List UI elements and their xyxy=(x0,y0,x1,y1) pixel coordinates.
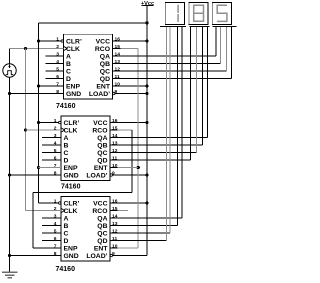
svg-text:QB: QB xyxy=(97,142,107,149)
svg-text:15: 15 xyxy=(112,206,118,212)
svg-text:CLR’: CLR’ xyxy=(64,200,80,207)
svg-text:4: 4 xyxy=(56,59,59,65)
svg-text:QD: QD xyxy=(97,157,107,164)
svg-text:CLR’: CLR’ xyxy=(64,120,80,127)
svg-text:15: 15 xyxy=(115,44,121,50)
svg-text:QB: QB xyxy=(97,223,107,230)
svg-text:14: 14 xyxy=(112,133,118,139)
svg-text:B: B xyxy=(66,61,71,68)
svg-text:6: 6 xyxy=(56,74,59,80)
svg-text:CLK: CLK xyxy=(64,208,78,215)
svg-text:11: 11 xyxy=(112,155,117,161)
svg-text:B: B xyxy=(64,142,69,149)
svg-text:9: 9 xyxy=(112,170,115,176)
svg-text:13: 13 xyxy=(112,140,118,146)
svg-text:QD: QD xyxy=(97,238,107,245)
svg-text:LOAD’: LOAD’ xyxy=(89,91,110,98)
svg-text:C: C xyxy=(64,150,69,157)
svg-text:ENT: ENT xyxy=(96,83,110,90)
svg-text:ENT: ENT xyxy=(94,165,108,172)
svg-text:74160: 74160 xyxy=(56,266,76,273)
svg-text:VCC: VCC xyxy=(93,120,107,127)
svg-text:9: 9 xyxy=(112,251,115,257)
svg-text:16: 16 xyxy=(112,198,118,204)
svg-text:D: D xyxy=(64,157,69,164)
svg-text:A: A xyxy=(66,53,71,60)
svg-text:VCC: VCC xyxy=(93,200,107,207)
svg-text:5: 5 xyxy=(54,228,57,234)
svg-text:LOAD’: LOAD’ xyxy=(86,253,107,260)
svg-text:GND: GND xyxy=(64,172,79,179)
svg-text:12: 12 xyxy=(112,148,118,154)
svg-text:RCO: RCO xyxy=(92,127,107,134)
svg-text:QD: QD xyxy=(100,76,110,83)
svg-text:3: 3 xyxy=(54,133,57,139)
svg-text:11: 11 xyxy=(115,74,120,80)
svg-text:QA: QA xyxy=(97,215,107,222)
svg-text:VCC: VCC xyxy=(96,38,110,45)
svg-text:B: B xyxy=(64,223,69,230)
svg-text:GND: GND xyxy=(64,253,79,260)
svg-text:GND: GND xyxy=(66,91,81,98)
svg-text:QC: QC xyxy=(97,230,107,237)
svg-text:ENP: ENP xyxy=(64,245,78,252)
svg-text:12: 12 xyxy=(112,228,118,234)
svg-text:16: 16 xyxy=(112,118,118,124)
svg-text:16: 16 xyxy=(115,36,121,42)
svg-text:A: A xyxy=(64,215,69,222)
svg-text:A: A xyxy=(64,135,69,142)
svg-text:D: D xyxy=(66,76,71,83)
svg-text:74160: 74160 xyxy=(56,103,76,110)
svg-text:C: C xyxy=(66,68,71,75)
svg-text:13: 13 xyxy=(112,221,118,227)
svg-text:13: 13 xyxy=(115,59,121,65)
svg-text:4: 4 xyxy=(54,140,57,146)
svg-text:QA: QA xyxy=(97,135,107,142)
svg-text:ENP: ENP xyxy=(64,165,78,172)
svg-text:15: 15 xyxy=(112,125,118,131)
svg-text:RCO: RCO xyxy=(95,46,110,53)
svg-text:10: 10 xyxy=(112,243,118,249)
svg-text:6: 6 xyxy=(54,236,57,242)
svg-text:5: 5 xyxy=(54,148,57,154)
svg-text:CLR’: CLR’ xyxy=(66,38,82,45)
svg-text:11: 11 xyxy=(112,236,117,242)
svg-text:CLK: CLK xyxy=(64,127,78,134)
svg-text:QA: QA xyxy=(100,53,110,60)
svg-text:ENT: ENT xyxy=(94,245,108,252)
svg-text:14: 14 xyxy=(112,213,118,219)
svg-text:QC: QC xyxy=(100,68,110,75)
svg-text:10: 10 xyxy=(115,81,121,87)
svg-text:14: 14 xyxy=(115,51,121,57)
svg-text:LOAD’: LOAD’ xyxy=(86,172,107,179)
svg-text:C: C xyxy=(64,230,69,237)
svg-text:3: 3 xyxy=(54,213,57,219)
svg-text:CLK: CLK xyxy=(66,46,80,53)
svg-text:D: D xyxy=(64,238,69,245)
svg-text:12: 12 xyxy=(115,66,121,72)
svg-text:3: 3 xyxy=(56,51,59,57)
svg-text:5: 5 xyxy=(56,66,59,72)
svg-text:4: 4 xyxy=(54,221,57,227)
svg-text:RCO: RCO xyxy=(92,208,107,215)
svg-text:ENP: ENP xyxy=(66,83,80,90)
svg-text:10: 10 xyxy=(112,163,118,169)
svg-text:QC: QC xyxy=(97,150,107,157)
svg-text:9: 9 xyxy=(115,89,118,95)
svg-text:QB: QB xyxy=(100,61,110,68)
svg-text:74160: 74160 xyxy=(61,184,81,191)
svg-text:6: 6 xyxy=(54,155,57,161)
